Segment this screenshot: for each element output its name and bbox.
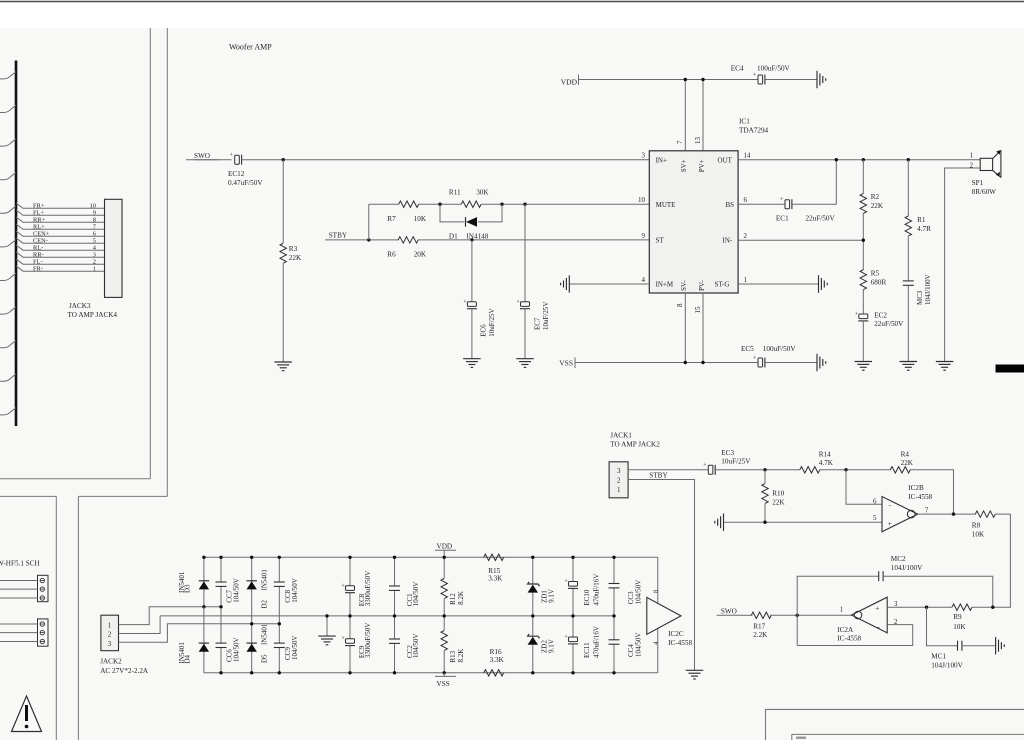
svg-text:1: 1 bbox=[108, 621, 112, 629]
svg-text:PV-: PV- bbox=[698, 280, 706, 291]
wire EC7 branch bbox=[524, 204, 526, 302]
node junctions D2/D5 bbox=[250, 556, 253, 559]
resistor R5 bbox=[860, 270, 866, 290]
ground below MC3 bbox=[900, 361, 918, 363]
wire IN+M to ground bbox=[569, 283, 649, 285]
diode D1 IN4148 bbox=[465, 217, 467, 227]
svg-text:3: 3 bbox=[108, 640, 112, 648]
wire VDD rail bbox=[579, 79, 759, 81]
svg-text:1: 1 bbox=[93, 265, 96, 272]
resistor R12 bbox=[441, 579, 447, 599]
node junction R9/MC2/R8 bbox=[991, 606, 994, 609]
svg-text:2: 2 bbox=[617, 477, 621, 485]
section divider vertical left sub-box bbox=[55, 496, 57, 740]
node junctions CC7 rail / node A / CC6 rail bbox=[219, 556, 222, 559]
node junctions EC8/EC9 bbox=[348, 556, 351, 559]
node junctions ZD1/ZD2 bbox=[531, 556, 534, 559]
wire D3 column bbox=[203, 557, 205, 607]
svg-text:2.2K: 2.2K bbox=[753, 631, 768, 639]
svg-text:470uF/16V: 470uF/16V bbox=[592, 626, 600, 658]
svg-text:SW-HF5.1 SCH: SW-HF5.1 SCH bbox=[0, 560, 40, 568]
wire to R7 bbox=[369, 203, 399, 205]
svg-text:8R/60W: 8R/60W bbox=[972, 188, 997, 196]
svg-text:3300uF/50V: 3300uF/50V bbox=[364, 571, 372, 606]
connector JACK1 body bbox=[609, 462, 628, 498]
svg-text:JACK1: JACK1 bbox=[610, 431, 632, 439]
wire EC8/EC9 column bbox=[349, 557, 351, 586]
svg-text:9: 9 bbox=[642, 232, 646, 240]
svg-text:9.1V: 9.1V bbox=[548, 589, 556, 603]
JACK3 wire pin 6 (CEN+) bbox=[16, 231, 105, 236]
ground below speaker return bbox=[936, 361, 954, 363]
node junction feedback/output bbox=[796, 614, 799, 617]
node junction R14/R4/pin6 bbox=[844, 468, 847, 471]
connector JACK2 body bbox=[101, 615, 119, 651]
JACK3 wire pin 10 (FR+) bbox=[16, 203, 105, 208]
svg-text:4: 4 bbox=[642, 276, 646, 284]
svg-text:10K: 10K bbox=[953, 623, 966, 631]
svg-text:+: + bbox=[753, 354, 757, 361]
wire center rail bbox=[160, 615, 614, 617]
svg-text:10: 10 bbox=[90, 203, 96, 210]
wire EC12 to IC1 pin3 bbox=[242, 159, 650, 161]
svg-text:22uF/50V: 22uF/50V bbox=[806, 214, 836, 222]
svg-text:R2: R2 bbox=[871, 193, 880, 201]
wire D4 column bbox=[203, 607, 205, 673]
svg-text:3: 3 bbox=[93, 251, 96, 258]
svg-text:R1: R1 bbox=[917, 216, 926, 224]
bus entry wire 8 bbox=[0, 307, 16, 314]
svg-text:R12: R12 bbox=[449, 593, 457, 605]
wire R7 branch vertical bbox=[368, 204, 370, 240]
svg-text:3: 3 bbox=[617, 467, 621, 475]
node junction D3 anode bbox=[202, 605, 205, 608]
resistor R14 bbox=[800, 467, 820, 473]
svg-text:R13: R13 bbox=[449, 650, 457, 662]
node junction R10 top bbox=[763, 468, 766, 471]
bottom-right outer box corner bbox=[766, 709, 1024, 740]
wire EC7 to ground bbox=[524, 309, 526, 359]
svg-text:22K: 22K bbox=[289, 254, 302, 262]
JACK3 wire pin 1 (FR-) bbox=[16, 266, 105, 271]
svg-text:5: 5 bbox=[93, 237, 96, 244]
ground below STBY line bbox=[686, 669, 704, 671]
connector CN2 body bbox=[38, 619, 49, 646]
capacitor CC8 bbox=[274, 581, 285, 583]
resistor R8 bbox=[975, 511, 995, 517]
resistor R1 bbox=[905, 216, 911, 236]
bus entry wire 4 bbox=[0, 172, 16, 179]
wire D2/D5 column bbox=[251, 557, 253, 624]
wire CC7/CC6 column bbox=[220, 557, 222, 582]
node junction +input/MC1 bbox=[925, 606, 928, 609]
svg-text:D2: D2 bbox=[261, 599, 269, 608]
bus entry wire 7 bbox=[0, 273, 16, 280]
capacitor MC3 bbox=[903, 280, 914, 282]
node junction R7/R11/D1 left bbox=[438, 203, 441, 206]
ground below R3 bbox=[274, 361, 292, 363]
wire JACK1 pin2 STBY down bbox=[628, 480, 694, 671]
svg-text:1: 1 bbox=[970, 153, 973, 160]
JACK3 wire pin 3 (RR-) bbox=[16, 252, 105, 257]
warning triangle bbox=[12, 696, 42, 732]
svg-text:30K: 30K bbox=[476, 188, 489, 196]
svg-text:EC1: EC1 bbox=[776, 214, 789, 222]
svg-text:10uF/25V: 10uF/25V bbox=[542, 302, 550, 330]
svg-text:EC3: EC3 bbox=[721, 449, 734, 457]
svg-text:RR+: RR+ bbox=[33, 216, 46, 223]
node junctions CC3/CC4 bbox=[612, 556, 615, 559]
wire MC1 branch bbox=[927, 607, 958, 646]
node junction EC6 branch bbox=[470, 238, 473, 241]
svg-text:IN+: IN+ bbox=[656, 156, 667, 164]
wire BS to EC1 bbox=[738, 203, 785, 205]
svg-text:SV+: SV+ bbox=[680, 159, 688, 172]
svg-text:FR-: FR- bbox=[33, 265, 43, 272]
node junctions EC10/EC11 bbox=[571, 556, 574, 559]
svg-text:10: 10 bbox=[638, 196, 646, 204]
svg-text:IN-: IN- bbox=[723, 237, 733, 245]
svg-text:104/50V: 104/50V bbox=[635, 633, 643, 658]
speaker SP1 body bbox=[980, 158, 992, 170]
svg-text:R3: R3 bbox=[289, 245, 298, 253]
op-amp IC2C unused half bbox=[647, 597, 681, 634]
connector CN1 body bbox=[38, 575, 49, 601]
svg-text:1: 1 bbox=[744, 276, 748, 284]
wire EC10 column bbox=[572, 557, 574, 581]
ground below EC7 bbox=[516, 358, 534, 360]
svg-text:+: + bbox=[753, 71, 757, 78]
connector CN1 pin 2 bbox=[40, 587, 44, 591]
svg-text:FL+: FL+ bbox=[33, 209, 44, 216]
wire CC1/CC2 column bbox=[394, 557, 396, 586]
svg-text:3.3K: 3.3K bbox=[488, 575, 503, 583]
svg-text:104/50V: 104/50V bbox=[233, 578, 241, 603]
wire R14 to R4 bbox=[819, 469, 891, 471]
node junction R11/D1 right bbox=[500, 203, 503, 206]
svg-text:680R: 680R bbox=[871, 279, 887, 287]
svg-text:IC2C: IC2C bbox=[668, 630, 684, 638]
node junction IN-/R2/R5 bbox=[862, 239, 865, 242]
wire R2 to IN- node bbox=[862, 213, 864, 270]
svg-text:CEN-: CEN- bbox=[33, 237, 48, 244]
svg-text:FL-: FL- bbox=[33, 258, 43, 265]
svg-text:D1: D1 bbox=[449, 232, 458, 240]
svg-text:3: 3 bbox=[642, 152, 646, 160]
wire IC2A + input to R9 bbox=[887, 606, 952, 608]
svg-text:4.7K: 4.7K bbox=[819, 459, 834, 467]
op-amp IC2A mirrored bbox=[852, 597, 888, 633]
svg-text:8: 8 bbox=[93, 216, 96, 223]
resistor R9 bbox=[952, 604, 972, 610]
svg-text:+: + bbox=[463, 299, 467, 305]
node junction PV- bbox=[701, 361, 704, 364]
svg-text:SP1: SP1 bbox=[972, 179, 984, 187]
svg-text:R16: R16 bbox=[490, 648, 502, 656]
ground right of EC4 bbox=[816, 71, 818, 89]
wire MC2 to R9 node bbox=[883, 576, 993, 607]
connector CN2 pin 2 bbox=[40, 630, 44, 634]
wire EC11 column bbox=[572, 616, 574, 637]
svg-text:20K: 20K bbox=[414, 251, 427, 259]
connector CN2 pin 3 bbox=[40, 639, 44, 643]
diode D3 IN5401 bbox=[199, 580, 209, 582]
black margin bar bbox=[996, 365, 1024, 373]
svg-text:CC3: CC3 bbox=[627, 591, 635, 604]
svg-text:8.2K: 8.2K bbox=[457, 591, 465, 605]
svg-text:IC1: IC1 bbox=[739, 118, 750, 126]
bus entry wire 11 bbox=[0, 408, 16, 415]
svg-text:R9: R9 bbox=[953, 613, 962, 621]
bus entry wire 2 bbox=[0, 105, 16, 112]
svg-text:EC6: EC6 bbox=[479, 324, 487, 337]
svg-text:3300uF/50V: 3300uF/50V bbox=[364, 623, 372, 658]
wire CC3 column bbox=[613, 557, 615, 583]
connector JACK3 body bbox=[105, 199, 123, 297]
wire SV+ to VDD rail bbox=[684, 80, 686, 151]
resistor R10 bbox=[762, 484, 768, 504]
node junctions R12/R13 bbox=[443, 556, 446, 559]
wire EC6 to ground bbox=[471, 309, 473, 359]
section divider horizontal to bottom-left section bbox=[78, 495, 167, 497]
svg-text:104/50V: 104/50V bbox=[412, 634, 420, 659]
node junction STBY/R7 bbox=[367, 238, 370, 241]
ground right of EC5 bbox=[816, 354, 818, 372]
signal bus bbox=[15, 61, 18, 427]
svg-text:100uF/50V: 100uF/50V bbox=[757, 64, 791, 72]
svg-text:10K: 10K bbox=[972, 531, 985, 539]
svg-text:IN5401: IN5401 bbox=[178, 571, 186, 593]
bus entry wire 3 bbox=[0, 139, 16, 146]
svg-text:IN5401: IN5401 bbox=[261, 623, 269, 645]
capacitor CC2 bbox=[389, 638, 400, 640]
svg-text:+: + bbox=[230, 152, 234, 159]
capacitor CC6 bbox=[216, 642, 227, 644]
svg-text:FR+: FR+ bbox=[33, 203, 45, 210]
svg-text:RR-: RR- bbox=[33, 251, 44, 258]
bus entry wire 1 bbox=[0, 72, 16, 79]
wire R11 to MUTE bbox=[481, 203, 649, 205]
wire ground to IC2B + input bbox=[724, 521, 883, 523]
svg-text:MUTE: MUTE bbox=[656, 201, 676, 209]
wire EC4 to ground bbox=[765, 79, 817, 81]
wire R9 to feedback node bbox=[972, 606, 993, 608]
capacitor MC2 bbox=[878, 571, 880, 581]
svg-text:IC2A: IC2A bbox=[837, 626, 854, 634]
svg-text:2: 2 bbox=[744, 232, 748, 240]
svg-text:22uF/50V: 22uF/50V bbox=[874, 320, 904, 328]
svg-text:10uF/25V: 10uF/25V bbox=[721, 458, 751, 466]
svg-text:100uF/50V: 100uF/50V bbox=[763, 345, 797, 353]
bus entry wire 10 bbox=[0, 374, 16, 381]
svg-text:15: 15 bbox=[694, 306, 702, 314]
wire R7 to R11 node bbox=[419, 203, 462, 205]
node junction SV+ bbox=[684, 78, 687, 81]
svg-text:EC5: EC5 bbox=[741, 345, 754, 353]
svg-text:EC10: EC10 bbox=[583, 589, 591, 605]
wire CC8/CC9 column bbox=[278, 557, 280, 582]
svg-text:EC2: EC2 bbox=[874, 311, 887, 319]
bus entry wire 9 bbox=[0, 340, 16, 347]
svg-text:104/50V: 104/50V bbox=[635, 580, 643, 605]
wire JACK2 pin2 to center rail bbox=[119, 616, 161, 634]
JACK3 wire pin 2 (FL-) bbox=[16, 259, 105, 264]
wire center rail ground stub bbox=[326, 616, 328, 636]
svg-text:SV-: SV- bbox=[680, 280, 688, 291]
svg-text:BS: BS bbox=[726, 201, 735, 209]
capacitor CC7 bbox=[216, 581, 227, 583]
wire negative rail bbox=[204, 672, 658, 674]
svg-text:22K: 22K bbox=[871, 202, 884, 210]
node junction output/R4 bbox=[952, 512, 955, 515]
JACK3 wire pin 8 (RR+) bbox=[16, 217, 105, 222]
section divider horizontal line upper-left box bottom bbox=[0, 478, 150, 480]
wire R10 bbox=[764, 470, 766, 483]
wire ZD2 column bbox=[532, 616, 534, 636]
svg-text:R15: R15 bbox=[488, 567, 500, 575]
resistor R3 bbox=[280, 243, 286, 263]
wire R6 to IC1 ST pin bbox=[418, 239, 650, 241]
wire EC1 to OUT node bbox=[792, 160, 836, 205]
svg-text:AC 27V*2-2.2A: AC 27V*2-2.2A bbox=[100, 667, 149, 675]
svg-text:104J/100V: 104J/100V bbox=[891, 564, 923, 572]
node junctions CC8/CC9 bbox=[278, 556, 281, 559]
wire OUT to R2 bbox=[862, 160, 864, 194]
node junction PV+ bbox=[701, 78, 704, 81]
svg-text:104/50V: 104/50V bbox=[291, 578, 299, 603]
bottom-right partial text bbox=[796, 737, 806, 740]
resistor R16 in negative rail bbox=[484, 670, 504, 676]
wire SWO to EC12 bbox=[186, 159, 232, 161]
connector CN1 pin 1 bbox=[40, 578, 44, 582]
resistor R7 bbox=[399, 201, 419, 207]
svg-text:+: + bbox=[780, 196, 784, 203]
ground left of IC2B + input bbox=[723, 513, 725, 531]
svg-text:MC2: MC2 bbox=[891, 555, 906, 563]
svg-text:EC11: EC11 bbox=[583, 642, 591, 658]
wire R3 to ground bbox=[282, 263, 284, 362]
svg-text:EC12: EC12 bbox=[228, 170, 245, 178]
wire MC1 to ground bbox=[962, 645, 996, 647]
wire PV- to VSS rail bbox=[702, 293, 704, 363]
svg-text:R11: R11 bbox=[449, 188, 461, 196]
svg-text:ST: ST bbox=[656, 237, 665, 245]
svg-text:10uF/25V: 10uF/25V bbox=[488, 308, 496, 336]
svg-text:2: 2 bbox=[93, 258, 96, 265]
svg-text:D5: D5 bbox=[261, 654, 269, 663]
wire feedback loop left and top bbox=[797, 576, 879, 645]
ground at IN+M bbox=[568, 275, 570, 293]
wire down to R3 bbox=[282, 160, 284, 243]
zener ZD1 bbox=[528, 582, 540, 586]
svg-text:8.2K: 8.2K bbox=[457, 649, 465, 663]
svg-text:3.3K: 3.3K bbox=[490, 656, 505, 664]
svg-text:EC7: EC7 bbox=[533, 317, 541, 330]
svg-text:TO AMP JACK2: TO AMP JACK2 bbox=[610, 441, 660, 449]
svg-text:1: 1 bbox=[617, 486, 621, 494]
svg-text:EC4: EC4 bbox=[731, 64, 744, 72]
wire JACK2 pin3 to node B bbox=[119, 624, 280, 642]
svg-text:R6: R6 bbox=[387, 251, 396, 259]
svg-text:VSS: VSS bbox=[559, 359, 573, 368]
svg-text:6: 6 bbox=[744, 196, 748, 204]
wire EC6 branch bbox=[471, 240, 473, 302]
svg-text:R4: R4 bbox=[901, 451, 910, 459]
svg-text:VSS: VSS bbox=[437, 680, 450, 688]
net label VSS bottom bbox=[435, 675, 456, 677]
svg-text:104/50V: 104/50V bbox=[412, 582, 420, 607]
svg-text:1: 1 bbox=[840, 605, 844, 613]
wire ST-G to ground bbox=[738, 283, 818, 285]
section divider vertical line inner bbox=[149, 28, 151, 479]
section divider horizontal left sub-box bbox=[0, 495, 56, 497]
svg-text:IC2B: IC2B bbox=[908, 484, 924, 492]
svg-text:10K: 10K bbox=[414, 215, 427, 223]
node junction SV- bbox=[684, 361, 687, 364]
zener ZD2 bbox=[528, 634, 540, 638]
svg-text:ST-G: ST-G bbox=[715, 281, 730, 289]
node junction R10 bottom bbox=[763, 521, 766, 524]
svg-text:RL-: RL- bbox=[33, 244, 43, 251]
svg-text:IC-4558: IC-4558 bbox=[908, 493, 932, 501]
ground below EC6 bbox=[463, 358, 481, 360]
JACK3 wire pin 4 (RL-) bbox=[16, 245, 105, 250]
connector CN2 pin 1 bbox=[40, 622, 44, 626]
bus entry wire 5 bbox=[0, 206, 16, 213]
connector CN1 pin 3 bbox=[40, 596, 44, 600]
svg-text:104J/100V: 104J/100V bbox=[924, 274, 932, 305]
svg-text:R8: R8 bbox=[972, 522, 981, 530]
wire R12 column bbox=[443, 557, 445, 578]
ground below center rail bbox=[318, 635, 336, 637]
svg-text:4.7R: 4.7R bbox=[917, 225, 931, 233]
JACK3 wire pin 5 (CEN-) bbox=[16, 238, 105, 243]
svg-text:470uF/16V: 470uF/16V bbox=[592, 574, 600, 606]
svg-text:VDD: VDD bbox=[437, 542, 453, 550]
wire IC2B output bbox=[918, 513, 976, 515]
svg-text:22K: 22K bbox=[901, 459, 914, 467]
wire JACK1 pin3 to EC3 bbox=[628, 469, 708, 471]
resistor R4 bbox=[890, 467, 910, 473]
svg-text:STBY: STBY bbox=[329, 232, 348, 240]
svg-text:9.1V: 9.1V bbox=[548, 639, 556, 653]
svg-text:OUT: OUT bbox=[718, 156, 733, 164]
svg-text:104J/100V: 104J/100V bbox=[931, 662, 963, 670]
wire R5 to EC2 bbox=[862, 290, 864, 314]
svg-text:R14: R14 bbox=[819, 451, 831, 459]
svg-text:22K: 22K bbox=[772, 499, 785, 507]
svg-text:13: 13 bbox=[694, 137, 702, 145]
svg-text:SWO: SWO bbox=[721, 607, 737, 615]
resistor R11 bbox=[461, 201, 481, 207]
svg-text:RL+: RL+ bbox=[33, 223, 45, 230]
JACK3 wire pin 9 (FL+) bbox=[16, 210, 105, 215]
svg-text:VDD: VDD bbox=[561, 77, 578, 86]
wire R17 to IC2A output node bbox=[770, 614, 853, 616]
bus entry wire 6 bbox=[0, 240, 16, 247]
svg-text:STBY: STBY bbox=[649, 472, 668, 480]
svg-text:+: + bbox=[875, 604, 879, 613]
wire VSS rail bbox=[575, 362, 758, 364]
bottom-right inner box corner bbox=[792, 734, 1024, 740]
svg-text:7: 7 bbox=[925, 506, 929, 514]
node junction positive rail D3 bbox=[202, 556, 205, 559]
svg-text:Woofer AMP: Woofer AMP bbox=[229, 43, 272, 52]
svg-text:TDA7294: TDA7294 bbox=[739, 127, 769, 135]
ground at ST-G bbox=[818, 275, 820, 293]
svg-text:R7: R7 bbox=[387, 215, 396, 223]
wire IC2C supply taps bbox=[657, 557, 659, 603]
